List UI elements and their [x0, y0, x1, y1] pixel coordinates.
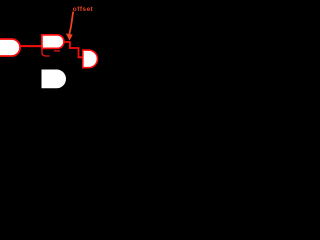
ghost outline G3 left edge and corner (red outline fragment below G2): [42, 48, 50, 56]
svg-text:offset: offset: [73, 6, 94, 13]
AND gate G2 (middle upper, white fill, red outline): [42, 35, 64, 49]
AND gate G1 (left, clipped at canvas edge, white fill, red outline): [0, 39, 20, 56]
ghost outline G3 top strip fragment: [54, 50, 60, 52]
AND gate G5 (bottom middle, solid white, no outline): [42, 70, 67, 89]
wire G2 output routed to G4 input: [65, 42, 83, 57]
wire G1 output to G2 input: [21, 45, 43, 47]
AND gate G4 (right, white fill, red outline): [83, 50, 98, 68]
annotation arrow shaft from label to wire junction: [69, 12, 73, 36]
background: [0, 0, 100, 100]
annotation arrow head: [66, 33, 73, 40]
